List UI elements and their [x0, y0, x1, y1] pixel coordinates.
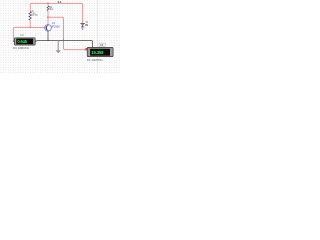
resistor R1	[29, 12, 31, 21]
voltmeter U3	[99, 43, 105, 47]
svg-text:15.358: 15.358	[91, 50, 104, 55]
wire: JFET source down to ground bus (dark)	[46, 31, 50, 40]
ground arrow	[56, 40, 61, 53]
wire: drain tap to right then down to U3 plus	[48, 17, 86, 49]
background	[0, 0, 120, 73]
wire: gate node left and down to U2 plus	[13, 27, 30, 40]
wire: ground bus	[37, 40, 93, 47]
page border line	[96, 0, 98, 73]
svg-text:BF256B: BF256B	[51, 25, 60, 28]
node: bus crossing red wire	[63, 40, 65, 42]
resistor R2 (drain)	[47, 6, 49, 11]
node: rail junction above R2	[47, 3, 49, 5]
battery V1	[80, 24, 84, 27]
node: bus/source junction	[47, 40, 49, 42]
wire: R2 top stub	[46, 3, 50, 5]
svg-text:9V: 9V	[85, 24, 88, 27]
transistor Q1 (JFET)	[45, 25, 52, 32]
svg-text:0.645: 0.645	[17, 39, 27, 44]
wire: top supply rail	[30, 3, 82, 23]
wire: drain vertical	[46, 11, 50, 25]
node A: gate node	[29, 27, 31, 29]
wire: R1 bottom to gate node	[28, 20, 32, 27]
svg-text:9.0: 9.0	[58, 1, 62, 4]
wire: gate node to JFET gate	[30, 25, 45, 29]
node: drain tap	[47, 16, 49, 18]
ground below battery	[81, 27, 84, 29]
